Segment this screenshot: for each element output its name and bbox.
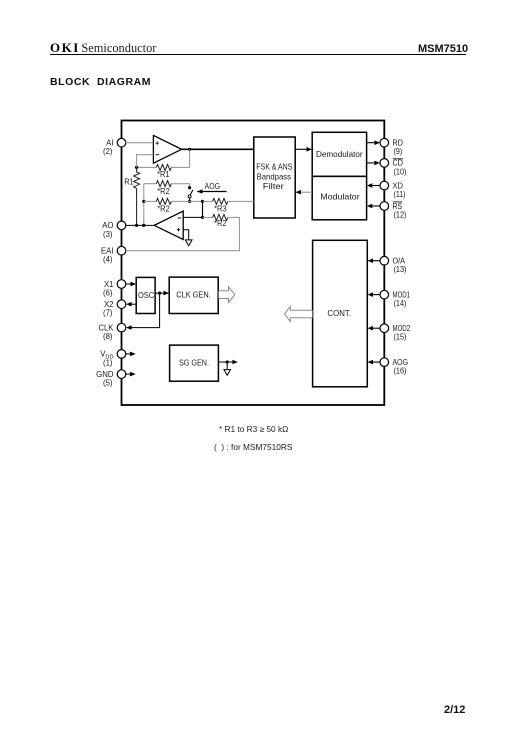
block CLK GEN — [169, 277, 218, 313]
svg-text:AI: AI — [106, 139, 113, 148]
wire A1 output to feedback — [189, 149, 191, 167]
svg-text:*R2: *R2 — [214, 219, 227, 228]
pin O/A (13) — [380, 256, 407, 274]
wire FSK to Demodulator — [295, 148, 306, 150]
svg-text:CLK GEN.: CLK GEN. — [176, 289, 211, 299]
svg-text:(4): (4) — [103, 255, 113, 264]
svg-text:RD: RD — [393, 139, 404, 148]
block Modulator — [312, 176, 366, 219]
svg-text:(7): (7) — [103, 309, 113, 318]
page number — [444, 704, 465, 716]
wire R2c left segment — [203, 216, 213, 218]
chip outline — [122, 121, 385, 406]
note parentheses — [214, 442, 292, 452]
svg-text:(12): (12) — [394, 211, 407, 220]
svg-text:CLK: CLK — [98, 323, 114, 332]
pin AI (2) — [103, 138, 126, 156]
svg-text:Modulator: Modulator — [320, 191, 360, 201]
svg-text:AOG: AOG — [205, 182, 221, 191]
wire SG to ground — [226, 362, 228, 370]
wire feedback node to R1 — [136, 167, 138, 172]
ground near A2 — [185, 240, 192, 246]
wire Demodulator to CD — [367, 162, 375, 164]
wire AO node up branch — [143, 184, 145, 226]
resistor R1 — [134, 172, 140, 188]
svg-text:GND: GND — [96, 370, 114, 379]
svg-text:(13): (13) — [394, 265, 407, 274]
junction R3 left top — [201, 200, 204, 203]
junction R2c left — [201, 216, 204, 219]
junction OSC output — [158, 292, 161, 295]
svg-text:OSC: OSC — [138, 290, 154, 300]
wire MOD2 to CONT — [373, 327, 380, 329]
wire Modulator to FSK — [301, 191, 312, 193]
svg-text:*R3: *R3 — [214, 204, 227, 213]
pin GND (5) — [96, 370, 126, 388]
wire SG GEN output — [218, 361, 232, 363]
note R1 to R3 — [219, 424, 288, 434]
block CONT — [313, 240, 368, 386]
resistor *R2c — [213, 214, 228, 220]
pin X2 (7) — [103, 300, 126, 318]
wire node to A1 inverting input — [137, 155, 154, 168]
wire to resistor *R2a — [144, 183, 157, 185]
svg-text:Demodulator: Demodulator — [316, 149, 363, 159]
junction R2a at AO — [142, 224, 145, 227]
svg-text:(9): (9) — [394, 147, 403, 156]
svg-text:(14): (14) — [394, 299, 407, 308]
pin CLK (8) — [98, 323, 125, 341]
svg-text:RS: RS — [393, 202, 403, 211]
pin AO (3) — [102, 221, 126, 239]
wire R3 left segment — [203, 200, 213, 202]
wire AOG pin to CONT — [373, 361, 380, 363]
block FSK & ANS Bandpass Filter — [254, 137, 295, 218]
block SG GEN — [170, 345, 219, 381]
wire feedback left segment — [137, 166, 157, 168]
block Demodulator — [312, 132, 366, 176]
wire A1 output to FSK filter — [182, 148, 254, 150]
svg-text:X1: X1 — [104, 280, 114, 289]
svg-text:(1): (1) — [103, 358, 113, 367]
wire X1 to OSC — [126, 283, 131, 285]
svg-text:SG GEN.: SG GEN. — [179, 358, 209, 368]
switch blade — [190, 190, 193, 195]
junction switch bottom — [188, 200, 191, 203]
svg-text:(16): (16) — [394, 367, 407, 376]
ground near SG GEN — [224, 370, 231, 376]
svg-text:(8): (8) — [103, 332, 113, 341]
wire junction vertical — [202, 201, 204, 217]
wire O/A to CONT — [373, 260, 380, 262]
svg-text:AOG: AOG — [393, 358, 409, 367]
svg-text:CONT.: CONT. — [327, 308, 351, 318]
svg-text:(5): (5) — [103, 379, 113, 388]
svg-text:*R2: *R2 — [157, 187, 170, 196]
svg-text:(15): (15) — [394, 333, 407, 342]
wire R2b to R3 junction — [171, 200, 202, 202]
svg-text:FSK & ANS: FSK & ANS — [256, 161, 292, 171]
title BLOCK DIAGRAM — [50, 76, 151, 88]
wire *R2a to switch — [171, 184, 189, 187]
svg-text:AO: AO — [102, 221, 113, 230]
svg-text:EAI: EAI — [101, 247, 114, 256]
pin VDD (1) — [100, 350, 126, 368]
resistor *R2a — [156, 181, 171, 187]
junction A1 output — [188, 148, 191, 151]
wire A2 inverting to R2c — [183, 216, 202, 218]
svg-text:XD: XD — [393, 181, 404, 190]
pin AOG (16) — [380, 358, 408, 376]
wire OSC to CLK GEN — [155, 292, 164, 294]
wire R2c to EAI — [126, 217, 240, 250]
header rule — [50, 54, 466, 55]
switch AOG contact — [188, 186, 191, 189]
resistor *R3 — [213, 198, 228, 204]
wire R3 to FSK filter — [228, 200, 254, 202]
wire A2 output to AO — [126, 224, 154, 226]
wire R2b left segment — [144, 200, 157, 202]
header part number MSM7510 — [418, 43, 468, 55]
junction feedback node — [135, 166, 138, 169]
pin RD (9) — [380, 138, 403, 156]
resistor *R1 feedback — [156, 164, 171, 170]
svg-text:R1: R1 — [124, 178, 134, 187]
pin MOD1 (14) — [380, 290, 410, 308]
resistor *R2b — [156, 198, 171, 204]
junction R1 at AO — [135, 224, 138, 227]
svg-text:(3): (3) — [103, 230, 113, 239]
wire to CLK pin — [132, 293, 160, 328]
wire Demodulator to RD — [367, 142, 375, 144]
pin RS (12) — [380, 202, 407, 220]
wire AI to A1 noninverting input — [126, 142, 154, 144]
svg-text:CD: CD — [393, 159, 404, 168]
svg-text:Bandpass: Bandpass — [257, 171, 291, 181]
block OSC — [136, 277, 155, 313]
svg-text:*R2: *R2 — [157, 205, 170, 214]
wire VDD into chip — [126, 353, 130, 355]
wire A2 noninverting to ground — [183, 230, 189, 240]
junction AO branch — [142, 200, 145, 203]
wire R1 to AO node — [136, 188, 138, 225]
header logo OKI — [50, 40, 156, 56]
svg-text:MOD2: MOD2 — [393, 324, 411, 333]
svg-text:X2: X2 — [104, 300, 114, 309]
switch pole — [188, 195, 191, 198]
wire feedback right segment — [171, 166, 189, 168]
svg-text:Filter: Filter — [263, 181, 284, 191]
svg-text:(6): (6) — [103, 289, 113, 298]
bus arrow from CONT — [285, 307, 313, 322]
op-amp A1 — [153, 135, 181, 163]
pin MOD2 (15) — [380, 324, 410, 342]
pin X1 (6) — [103, 280, 126, 298]
wire RS to Modulator — [372, 205, 380, 207]
wire GND into chip — [126, 373, 130, 375]
junction SG output — [226, 360, 229, 363]
svg-text:*R1: *R1 — [157, 170, 170, 179]
wire switch to R2b line — [189, 198, 191, 202]
pin XD (11) — [380, 181, 406, 199]
bus arrow from CLK GEN — [219, 287, 235, 303]
arrow AOG control — [197, 191, 226, 193]
wire XD to Modulator — [372, 185, 380, 187]
svg-text:(11): (11) — [394, 190, 406, 199]
wire OSC to X2 — [131, 303, 136, 305]
pin CD (10) — [380, 159, 407, 177]
op-amp A2 — [154, 211, 183, 240]
svg-text:(2): (2) — [103, 147, 113, 156]
svg-text:(10): (10) — [394, 167, 407, 176]
svg-text:O/A: O/A — [393, 257, 406, 266]
svg-text:MOD1: MOD1 — [393, 290, 411, 299]
wire MOD1 to CONT — [373, 294, 380, 296]
pin EAI (4) — [101, 246, 126, 264]
